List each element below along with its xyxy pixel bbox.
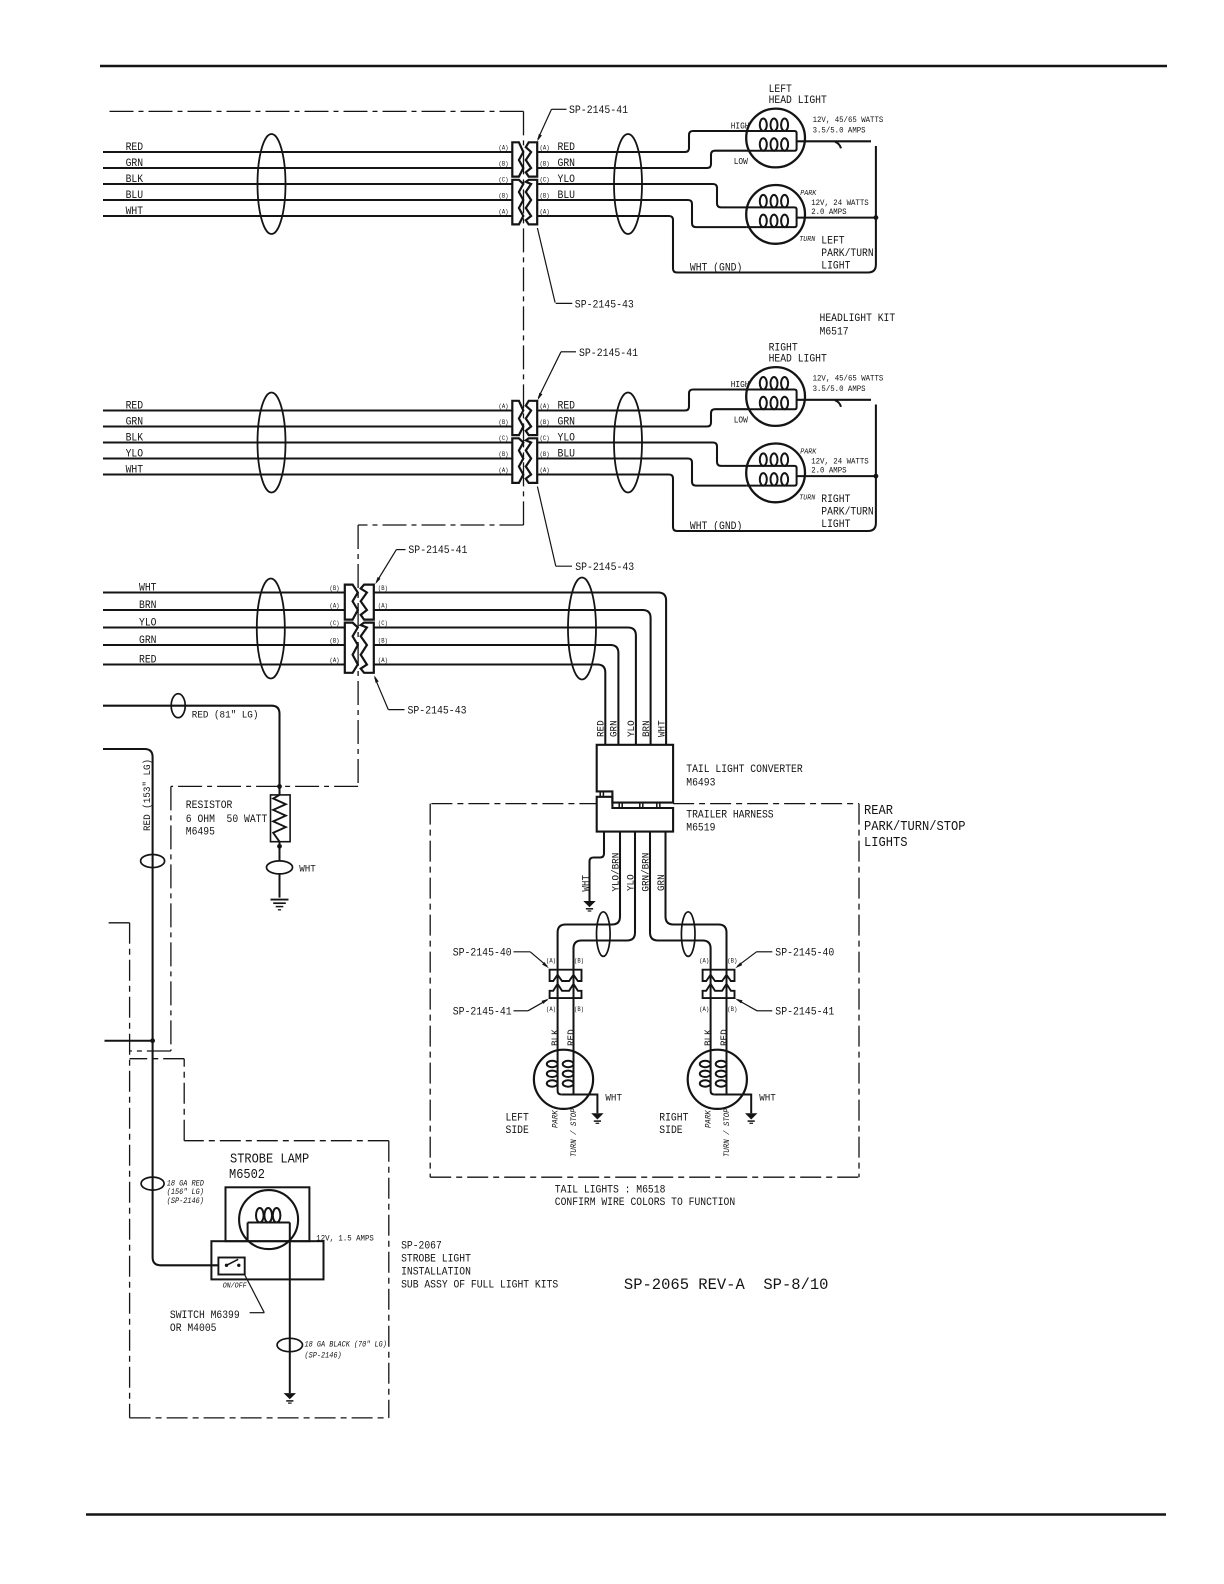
svg-text:TURN: TURN xyxy=(799,236,816,244)
svg-text:WHT: WHT xyxy=(605,1094,622,1105)
svg-text:LEFT: LEFT xyxy=(821,236,845,248)
svg-text:GRN: GRN xyxy=(657,874,668,891)
svg-text:GRN: GRN xyxy=(139,635,157,647)
svg-text:(C): (C) xyxy=(330,620,340,627)
svg-text:SP-2145-43: SP-2145-43 xyxy=(575,300,634,312)
svg-text:WHT: WHT xyxy=(139,582,157,594)
svg-text:REAR: REAR xyxy=(864,804,893,819)
svg-text:(B): (B) xyxy=(540,192,550,199)
svg-text:WHT (GND): WHT (GND) xyxy=(690,521,742,533)
svg-text:(A): (A) xyxy=(499,144,509,151)
svg-text:(B): (B) xyxy=(378,585,388,592)
svg-text:12V, 1.5 AMPS: 12V, 1.5 AMPS xyxy=(316,1233,374,1243)
svg-text:(A): (A) xyxy=(546,1006,556,1013)
svg-text:(C): (C) xyxy=(540,176,550,183)
svg-text:12V, 45/65 WATTS: 12V, 45/65 WATTS xyxy=(813,115,884,125)
svg-text:WHT: WHT xyxy=(126,464,144,476)
svg-text:(156" LG): (156" LG) xyxy=(167,1188,204,1197)
svg-text:(A): (A) xyxy=(540,144,550,151)
svg-text:M6517: M6517 xyxy=(820,327,849,339)
svg-text:(A): (A) xyxy=(540,208,550,215)
svg-text:RIGHT: RIGHT xyxy=(659,1112,689,1124)
svg-text:M6519: M6519 xyxy=(686,823,715,835)
svg-text:YLO: YLO xyxy=(126,448,144,460)
svg-text:LOW: LOW xyxy=(734,157,749,167)
svg-text:HIGH: HIGH xyxy=(731,380,750,390)
svg-text:(A): (A) xyxy=(499,403,509,410)
svg-text:LOW: LOW xyxy=(734,416,749,426)
svg-text:18 GA RED: 18 GA RED xyxy=(167,1179,204,1188)
svg-text:WHT: WHT xyxy=(657,720,668,737)
svg-text:(A): (A) xyxy=(499,467,509,474)
svg-text:WHT: WHT xyxy=(126,206,144,218)
svg-text:(A): (A) xyxy=(699,958,709,965)
svg-text:SIDE: SIDE xyxy=(659,1125,682,1137)
svg-text:HIGH: HIGH xyxy=(731,121,750,131)
svg-text:(B): (B) xyxy=(540,160,550,167)
svg-text:(A): (A) xyxy=(540,403,550,410)
svg-text:(B): (B) xyxy=(540,451,550,458)
svg-text:(A): (A) xyxy=(330,657,340,664)
svg-text:BLK: BLK xyxy=(126,174,144,186)
svg-text:TAIL LIGHTS : M6518: TAIL LIGHTS : M6518 xyxy=(555,1184,666,1196)
svg-text:RED: RED xyxy=(720,1029,731,1046)
svg-text:BRN: BRN xyxy=(139,600,157,612)
svg-text:(C): (C) xyxy=(499,176,509,183)
svg-text:M6502: M6502 xyxy=(229,1168,265,1183)
svg-text:PARK: PARK xyxy=(550,1110,560,1128)
svg-text:(SP-2146): (SP-2146) xyxy=(305,1351,342,1360)
svg-text:SUB ASSY OF FULL LIGHT KITS: SUB ASSY OF FULL LIGHT KITS xyxy=(401,1280,558,1292)
svg-text:RED: RED xyxy=(567,1029,578,1046)
svg-text:LIGHTS: LIGHTS xyxy=(864,836,908,851)
svg-text:SP-2145-41: SP-2145-41 xyxy=(579,348,638,360)
svg-text:SIDE: SIDE xyxy=(506,1125,529,1137)
svg-text:(B): (B) xyxy=(330,585,340,592)
svg-text:(B): (B) xyxy=(499,192,509,199)
svg-text:TURN / STOP: TURN / STOP xyxy=(569,1108,579,1157)
svg-text:INSTALLATION: INSTALLATION xyxy=(401,1267,471,1279)
svg-text:SP-2145-40: SP-2145-40 xyxy=(775,948,834,960)
svg-text:TRAILER HARNESS: TRAILER HARNESS xyxy=(686,810,773,822)
svg-text:RED: RED xyxy=(126,400,144,412)
svg-text:BRN: BRN xyxy=(642,720,653,737)
svg-text:YLO: YLO xyxy=(627,874,638,891)
svg-text:(A): (A) xyxy=(540,467,550,474)
svg-text:WHT: WHT xyxy=(299,865,316,876)
svg-text:PARK/TURN: PARK/TURN xyxy=(821,507,873,519)
svg-text:SP-2145-43: SP-2145-43 xyxy=(408,706,467,718)
svg-text:M6493: M6493 xyxy=(686,778,715,790)
svg-text:2.0 AMPS: 2.0 AMPS xyxy=(811,207,846,217)
svg-text:LIGHT: LIGHT xyxy=(821,260,851,272)
svg-text:(A): (A) xyxy=(330,602,340,609)
svg-text:STROBE LIGHT: STROBE LIGHT xyxy=(401,1254,471,1266)
svg-text:LIGHT: LIGHT xyxy=(821,519,851,531)
svg-text:SP-2145-41: SP-2145-41 xyxy=(569,105,628,117)
svg-text:PARK/TURN/STOP: PARK/TURN/STOP xyxy=(864,820,966,835)
svg-text:(A): (A) xyxy=(378,602,388,609)
svg-text:18 GA BLACK (70" LG): 18 GA BLACK (70" LG) xyxy=(305,1341,387,1350)
svg-text:YLO: YLO xyxy=(627,720,638,737)
svg-text:(B): (B) xyxy=(727,1006,737,1013)
svg-text:(B): (B) xyxy=(499,419,509,426)
svg-text:RESISTOR: RESISTOR xyxy=(186,800,233,812)
svg-text:(A): (A) xyxy=(546,958,556,965)
svg-text:HEAD LIGHT: HEAD LIGHT xyxy=(769,95,828,107)
svg-text:(B): (B) xyxy=(727,958,737,965)
svg-text:CONFIRM WIRE COLORS TO FUNCTIO: CONFIRM WIRE COLORS TO FUNCTION xyxy=(555,1197,735,1209)
svg-text:HEAD LIGHT: HEAD LIGHT xyxy=(769,354,828,366)
svg-text:TURN / STOP: TURN / STOP xyxy=(722,1108,732,1157)
svg-text:WHT: WHT xyxy=(581,875,592,892)
svg-text:WHT: WHT xyxy=(759,1094,776,1105)
svg-text:STROBE LAMP: STROBE LAMP xyxy=(230,1153,309,1168)
svg-text:GRN: GRN xyxy=(610,720,621,737)
svg-text:TAIL LIGHT CONVERTER: TAIL LIGHT CONVERTER xyxy=(686,764,803,776)
svg-text:SP-2145-40: SP-2145-40 xyxy=(453,948,512,960)
svg-text:(A): (A) xyxy=(499,208,509,215)
svg-text:SP-2145-43: SP-2145-43 xyxy=(575,562,634,574)
svg-text:SP-2145-41: SP-2145-41 xyxy=(775,1007,834,1019)
svg-text:(C): (C) xyxy=(378,620,388,627)
svg-text:HEADLIGHT KIT: HEADLIGHT KIT xyxy=(820,313,896,325)
svg-text:BLK: BLK xyxy=(551,1029,562,1046)
svg-text:BLK: BLK xyxy=(704,1029,715,1046)
svg-text:2.0 AMPS: 2.0 AMPS xyxy=(811,466,846,476)
svg-text:GRN: GRN xyxy=(126,158,144,170)
svg-text:WHT (GND): WHT (GND) xyxy=(690,262,742,274)
svg-text:BLU: BLU xyxy=(126,190,144,202)
svg-text:OR M4005: OR M4005 xyxy=(170,1323,217,1335)
svg-text:(B): (B) xyxy=(574,1006,584,1013)
svg-text:RED (81" LG): RED (81" LG) xyxy=(192,710,259,722)
svg-text:(C): (C) xyxy=(540,435,550,442)
svg-text:(A): (A) xyxy=(378,657,388,664)
svg-text:SP-2145-41: SP-2145-41 xyxy=(453,1007,512,1019)
svg-text:RED: RED xyxy=(597,720,608,737)
svg-text:(A): (A) xyxy=(699,1006,709,1013)
svg-text:RIGHT: RIGHT xyxy=(821,494,851,506)
svg-text:SP-2065 REV-A SP-8/10: SP-2065 REV-A SP-8/10 xyxy=(624,1276,829,1294)
svg-text:(B): (B) xyxy=(378,637,388,644)
svg-text:6 OHM 50 WATT: 6 OHM 50 WATT xyxy=(186,814,268,826)
svg-text:GRN/BRN: GRN/BRN xyxy=(641,853,653,892)
svg-text:(B): (B) xyxy=(330,637,340,644)
svg-text:SP-2067: SP-2067 xyxy=(401,1241,442,1253)
svg-text:GRN: GRN xyxy=(126,416,144,428)
svg-text:3.5/5.0 AMPS: 3.5/5.0 AMPS xyxy=(813,126,866,136)
svg-text:M6495: M6495 xyxy=(186,827,215,839)
svg-text:(B): (B) xyxy=(540,419,550,426)
svg-text:(B): (B) xyxy=(499,451,509,458)
svg-text:(SP-2146): (SP-2146) xyxy=(167,1197,204,1206)
svg-text:YLO: YLO xyxy=(139,617,157,629)
svg-text:SP-2145-41: SP-2145-41 xyxy=(408,545,467,557)
svg-text:PARK: PARK xyxy=(800,190,817,198)
svg-text:(B): (B) xyxy=(499,160,509,167)
svg-text:RED: RED xyxy=(126,142,144,154)
svg-text:(C): (C) xyxy=(499,435,509,442)
svg-text:RED: RED xyxy=(139,654,157,666)
svg-text:SWITCH M6399: SWITCH M6399 xyxy=(170,1310,240,1322)
svg-text:3.5/5.0 AMPS: 3.5/5.0 AMPS xyxy=(813,384,866,394)
svg-text:12V, 45/65 WATTS: 12V, 45/65 WATTS xyxy=(813,374,884,384)
svg-text:TURN: TURN xyxy=(799,495,816,503)
svg-text:BLK: BLK xyxy=(126,432,144,444)
svg-text:LEFT: LEFT xyxy=(506,1112,530,1124)
svg-text:YLO/BRN: YLO/BRN xyxy=(611,853,623,892)
svg-text:RED (153" LG): RED (153" LG) xyxy=(142,759,154,831)
svg-text:PARK: PARK xyxy=(703,1110,713,1128)
svg-text:ON/OFF: ON/OFF xyxy=(223,1283,247,1291)
svg-text:(B): (B) xyxy=(574,958,584,965)
svg-text:PARK: PARK xyxy=(800,449,817,457)
svg-text:PARK/TURN: PARK/TURN xyxy=(821,248,873,260)
